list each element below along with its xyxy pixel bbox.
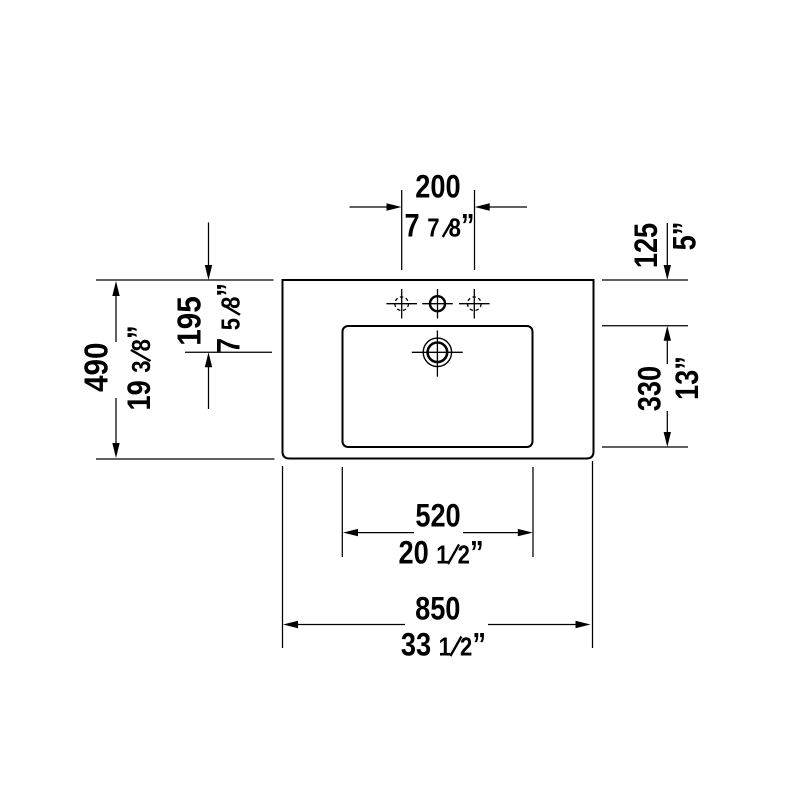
dim 490 line top (115, 294, 117, 342)
svg-text:13”: 13” (670, 356, 706, 400)
ext bottom 850 right (592, 461, 594, 648)
ext left bottom (490) (96, 458, 275, 460)
ext right bottom (330) (602, 446, 688, 448)
dimension lines (116, 207, 667, 625)
svg-text:7 7/8”: 7 7/8” (405, 208, 475, 244)
dim 330 line bottom (666, 411, 668, 434)
ext bottom 520 right (532, 467, 534, 557)
arrowheads (112, 203, 671, 628)
label 20 1/2 inch (398, 535, 483, 571)
dim 330 line top (666, 339, 668, 364)
overflow hole (412, 331, 463, 377)
faucet hole center (solid) (422, 289, 453, 319)
dim 490 line bottom (115, 398, 117, 445)
arrow 520 left (points left) (343, 529, 358, 536)
dim 520 line right (463, 532, 518, 534)
dim 200 line left (350, 206, 389, 208)
faucet hole right (dashed) (459, 289, 490, 319)
arrow 195 bottom (points up) (205, 352, 212, 367)
svg-text:520: 520 (415, 498, 460, 534)
ext right mid (125/330) (602, 325, 688, 327)
faucet hole left (dashed) (386, 289, 417, 319)
arrow 195 top (points down) (205, 265, 212, 280)
dim 850 line left (297, 624, 405, 626)
svg-text:7 5/8”: 7 5/8” (211, 283, 247, 353)
basin inner bowl outline (343, 326, 533, 447)
arrow 490 bottom (points down) (112, 443, 119, 458)
arrow 200 right (points left) (475, 203, 490, 210)
dim 520 line left (357, 532, 414, 534)
svg-text:490: 490 (78, 342, 115, 392)
svg-text:200: 200 (415, 169, 460, 205)
ext left top (490/195) (96, 279, 274, 281)
svg-text:330: 330 (632, 366, 668, 411)
arrow 330 bottom (points down) (664, 432, 671, 447)
svg-text:20 1/2”: 20 1/2” (398, 535, 483, 571)
label 19 3/8 inch (rotated) (122, 325, 158, 410)
ext top dim 200 left (401, 190, 403, 270)
arrow 850 left (points left) (283, 621, 298, 628)
extension lines (96, 190, 688, 648)
arrow 850 right (points right) (576, 621, 591, 628)
svg-text:33 1/2”: 33 1/2” (401, 627, 486, 663)
dim 125 line (666, 223, 668, 266)
arrow 125 (points down) (664, 265, 671, 280)
dim 850 line right (488, 624, 576, 626)
arrow 200 left (points right) (387, 203, 402, 210)
svg-text:195: 195 (171, 296, 208, 346)
svg-text:19 3/8”: 19 3/8” (122, 325, 158, 410)
ext left mid (195 bottom) (185, 351, 272, 353)
svg-text:850: 850 (415, 592, 460, 628)
dim 195 line bottom (208, 366, 210, 409)
svg-text:5”: 5” (667, 222, 703, 251)
ext top dim 200 right (474, 190, 476, 270)
dim 200 line right (488, 206, 527, 208)
ext bottom 520 left (341, 467, 343, 557)
svg-text:125: 125 (629, 223, 665, 268)
ext right top (125) (602, 279, 688, 281)
arrow 330 top (points up) (664, 326, 671, 341)
label 7 5/8 inch (rotated) (211, 283, 247, 353)
arrow 520 right (points right) (518, 529, 533, 536)
arrow 490 top (points up) (112, 281, 119, 296)
ext bottom 850 left (282, 466, 284, 648)
label 7 7/8 inch (405, 208, 475, 244)
label 33 1/2 inch (401, 627, 486, 663)
dim 195 line top (208, 222, 210, 266)
washbasin outer outline (283, 280, 594, 459)
